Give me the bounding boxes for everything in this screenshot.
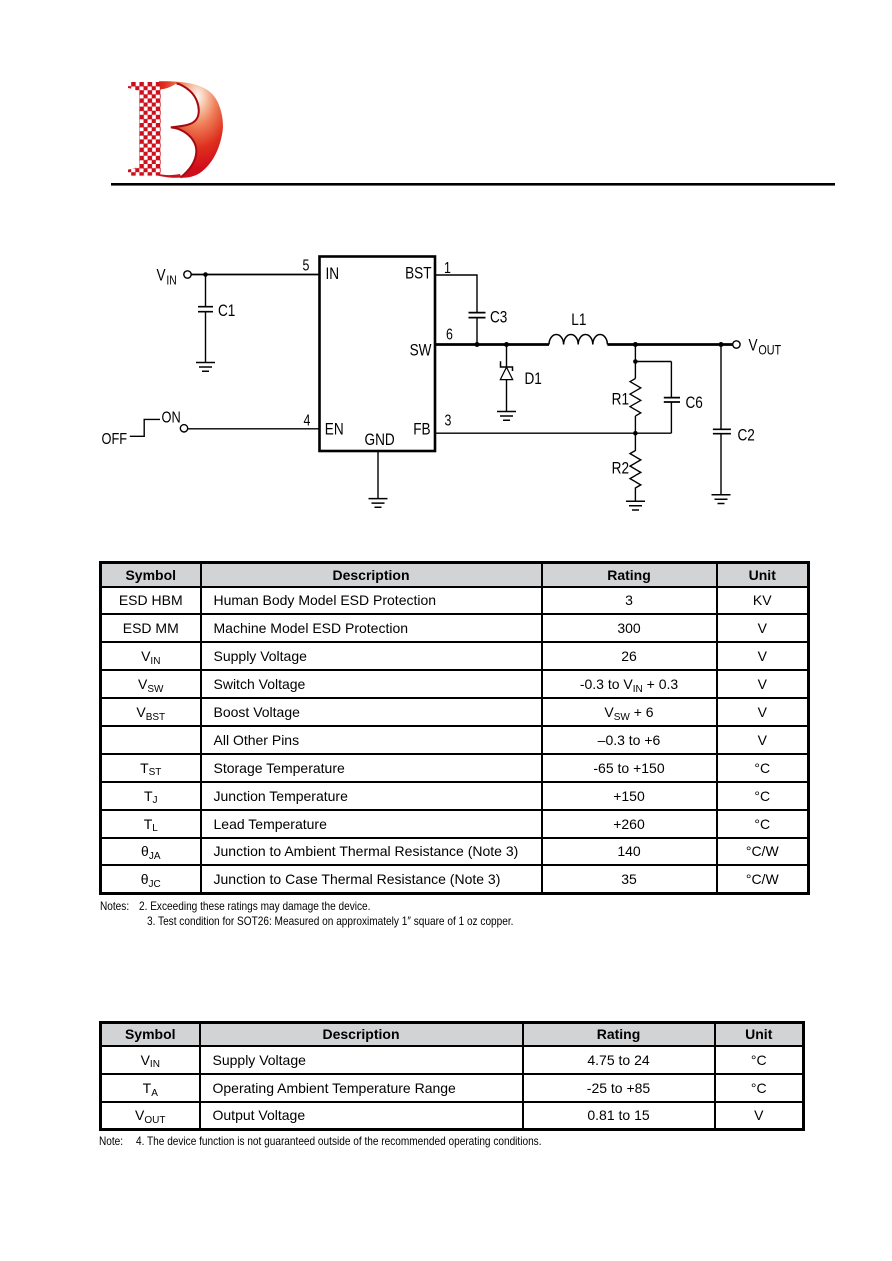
svg-text:L1: L1 bbox=[571, 310, 586, 329]
svg-text:R2: R2 bbox=[612, 459, 629, 478]
wire R1 branch bbox=[635, 345, 671, 362]
svg-text:1: 1 bbox=[444, 259, 451, 277]
resistor R2 bbox=[630, 433, 641, 501]
wire VIN to IN pin 5 bbox=[192, 274, 320, 276]
svg-text:R1: R1 bbox=[612, 390, 629, 409]
svg-text:C6: C6 bbox=[686, 394, 703, 413]
svg-text:OFF: OFF bbox=[102, 431, 128, 449]
svg-text:EN: EN bbox=[325, 420, 344, 439]
svg-text:SW: SW bbox=[410, 341, 432, 360]
svg-text:5: 5 bbox=[303, 256, 310, 274]
ground (C1) bbox=[196, 363, 215, 372]
svg-text:GND: GND bbox=[365, 431, 395, 450]
note under table 2 bbox=[99, 1134, 128, 1149]
svg-text:C3: C3 bbox=[490, 308, 507, 327]
table: recommended operating conditions bbox=[99, 1021, 805, 1131]
VOUT terminal bbox=[733, 341, 740, 348]
wire GND pin bbox=[377, 451, 379, 498]
capacitor C1 bbox=[198, 307, 213, 312]
logo bottom arm bbox=[157, 174, 182, 178]
svg-text:3: 3 bbox=[445, 411, 452, 429]
junction dots bbox=[203, 272, 208, 277]
ground (C2) bbox=[712, 495, 731, 504]
wire C2 drop bbox=[720, 345, 722, 430]
switch lever wire bbox=[130, 419, 160, 436]
table: absolute maximum ratings bbox=[99, 561, 810, 895]
wire C1 drop bbox=[205, 275, 207, 307]
wire BST pin 1 bbox=[435, 275, 477, 312]
wire FB pin 3 bbox=[435, 432, 671, 434]
wire SW pin 6 bbox=[435, 343, 549, 346]
svg-text:BST: BST bbox=[405, 264, 432, 283]
ground (IC GND) bbox=[369, 499, 388, 508]
svg-text:6: 6 bbox=[446, 325, 453, 343]
svg-text:C1: C1 bbox=[218, 302, 235, 321]
svg-text:VOUT: VOUT bbox=[749, 336, 782, 358]
capacitor C6 bbox=[670, 362, 672, 398]
logo checkered stem bbox=[128, 82, 161, 176]
svg-text:4: 4 bbox=[304, 411, 311, 429]
capacitor C2 bbox=[713, 429, 731, 433]
inductor L1 bbox=[549, 335, 607, 345]
wire L1 to VOUT bbox=[607, 343, 732, 346]
IC box U1 bbox=[320, 257, 436, 452]
switch contact bbox=[180, 425, 187, 432]
wire R1 top bbox=[634, 362, 636, 379]
svg-text:C2: C2 bbox=[738, 426, 755, 445]
wire EN pin 4 bbox=[188, 428, 320, 430]
wire D1 drop bbox=[506, 345, 508, 367]
svg-text:VIN: VIN bbox=[157, 266, 177, 288]
svg-text:D1: D1 bbox=[525, 370, 542, 389]
VIN terminal bbox=[184, 271, 191, 278]
logo bowl inner dark edges bbox=[171, 83, 199, 177]
header rule bbox=[111, 183, 835, 186]
resistor R1 bbox=[630, 379, 641, 417]
notes under table 1 bbox=[100, 899, 135, 914]
capacitor C3 bbox=[469, 313, 486, 318]
ground (R2) bbox=[626, 501, 645, 510]
svg-text:IN: IN bbox=[326, 265, 340, 284]
ground (D1) bbox=[497, 412, 516, 421]
diode D1 schottky bbox=[501, 361, 513, 371]
logo red bowl bbox=[159, 81, 223, 178]
svg-text:ON: ON bbox=[162, 409, 181, 427]
svg-text:FB: FB bbox=[413, 420, 430, 439]
